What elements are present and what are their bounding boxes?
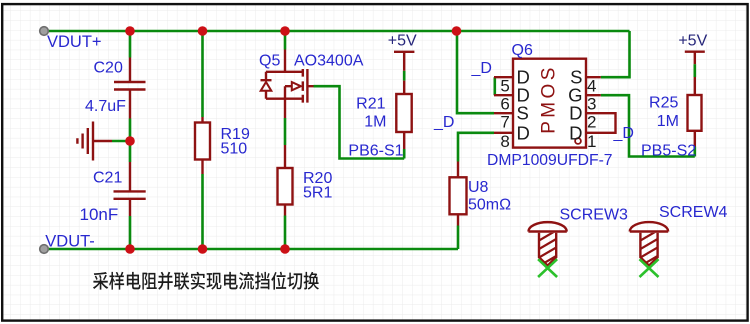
svg-text:C21: C21 [93, 170, 122, 187]
svg-text:1M: 1M [657, 113, 679, 130]
svg-text:PB6-S1: PB6-S1 [348, 143, 403, 160]
svg-text:R25: R25 [649, 94, 678, 111]
svg-text:1: 1 [587, 132, 596, 151]
svg-text:R21: R21 [356, 96, 385, 113]
svg-text:510: 510 [221, 141, 248, 158]
svg-text:Q5: Q5 [259, 52, 280, 69]
svg-text:Q6: Q6 [512, 42, 533, 59]
svg-text:8: 8 [500, 132, 509, 151]
svg-text:2: 2 [587, 113, 596, 132]
svg-text:5: 5 [500, 77, 509, 96]
svg-text:S: S [517, 103, 529, 124]
svg-text:+5V: +5V [388, 33, 417, 50]
svg-text:+5V: +5V [678, 33, 707, 50]
svg-text:10nF: 10nF [80, 205, 119, 224]
svg-text:PB5-S2: PB5-S2 [641, 143, 696, 160]
svg-text:1M: 1M [364, 113, 386, 130]
svg-text:D: D [569, 122, 582, 143]
svg-text:SCREW3: SCREW3 [560, 206, 629, 223]
svg-text:D: D [569, 103, 582, 124]
svg-text:AO3400A: AO3400A [294, 52, 364, 69]
svg-text:VDUT+: VDUT+ [47, 33, 102, 51]
svg-text:DMP1009UFDF-7: DMP1009UFDF-7 [487, 152, 613, 169]
svg-text:SCREW4: SCREW4 [659, 204, 728, 221]
svg-text:4.7uF: 4.7uF [85, 98, 126, 115]
svg-text:PMOS: PMOS [538, 64, 559, 134]
svg-text:_D: _D [471, 60, 492, 77]
svg-text:_D: _D [433, 114, 454, 131]
svg-text:50mΩ: 50mΩ [468, 196, 511, 213]
svg-text:7: 7 [500, 113, 509, 132]
svg-text:C20: C20 [94, 60, 123, 77]
svg-text:D: D [517, 122, 530, 143]
svg-text:4: 4 [587, 77, 596, 96]
svg-text:6: 6 [500, 95, 509, 114]
svg-text:U8: U8 [468, 179, 489, 196]
svg-text:3: 3 [587, 95, 596, 114]
svg-text:_D: _D [613, 125, 634, 142]
svg-text:5R1: 5R1 [303, 185, 332, 202]
svg-text:VDUT-: VDUT- [45, 232, 95, 250]
